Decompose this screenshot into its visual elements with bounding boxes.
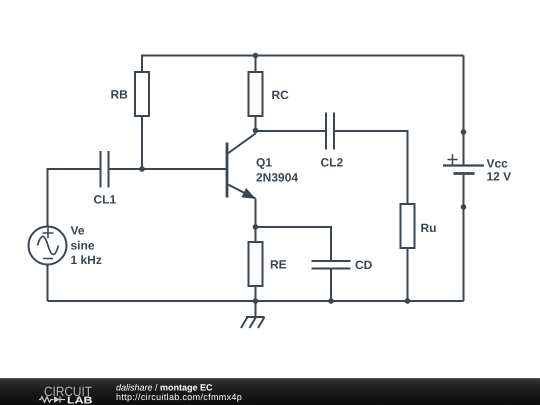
svg-text:RC: RC: [272, 88, 290, 102]
label Q1: [256, 156, 272, 170]
wire RB to top rail: [141, 55, 143, 73]
svg-text:1 kHz: 1 kHz: [71, 253, 102, 267]
wire collector node to CL2: [256, 130, 327, 132]
label CD: [355, 258, 373, 272]
resistor RB: [135, 72, 149, 116]
capacitor CD: [312, 261, 351, 269]
label Ve: [71, 224, 85, 238]
label CL1: [94, 193, 117, 207]
wire collector to RC: [255, 116, 257, 134]
logo squiggle: [39, 396, 65, 402]
label Vcc: [487, 157, 509, 171]
wire Ve to bottom rail: [47, 265, 49, 302]
wire CL1 to base: [109, 168, 228, 170]
wire top rail: [142, 55, 464, 57]
label CL2: [321, 156, 344, 170]
svg-text:RB: RB: [111, 88, 129, 102]
svg-text:LAB: LAB: [67, 396, 93, 405]
logo LAB: [67, 396, 93, 405]
label 1 kHz: [71, 253, 102, 267]
label 12 V: [487, 170, 512, 184]
wire bottom rail: [48, 300, 464, 302]
svg-text:http://circuitlab.com/cfmmx4p: http://circuitlab.com/cfmmx4p: [116, 392, 242, 402]
wire Ve to CL1: [48, 169, 101, 227]
svg-text:Ru: Ru: [421, 221, 437, 235]
ground: [241, 301, 265, 328]
junction base node: [139, 166, 145, 172]
capacitor CL2: [326, 113, 334, 150]
battery Vcc: [443, 56, 484, 302]
svg-text:12 V: 12 V: [487, 170, 512, 184]
battery bottom terminal: [461, 204, 467, 210]
capacitor CL1: [101, 151, 109, 188]
wire emitter node to CD: [256, 227, 332, 261]
wire Ru to bottom rail: [407, 248, 409, 301]
svg-text:CD: CD: [355, 258, 373, 272]
junction RE bottom rail: [253, 298, 259, 304]
wire CD to bottom rail: [330, 269, 332, 302]
resistor RE: [249, 227, 263, 301]
footer url: [116, 392, 242, 402]
wire emitter lead: [255, 199, 257, 228]
svg-text:2N3904: 2N3904: [256, 171, 298, 185]
junction collector node: [253, 128, 259, 134]
voltage source Ve: [29, 227, 67, 265]
label 2N3904: [256, 171, 298, 185]
svg-text:CL1: CL1: [94, 193, 117, 207]
battery top terminal: [461, 129, 467, 135]
svg-text:Q1: Q1: [256, 156, 272, 170]
wire CL2 to Ru: [334, 131, 408, 204]
transistor Q1: [227, 134, 256, 199]
resistor Ru: [401, 204, 415, 248]
label RB: [111, 88, 129, 102]
svg-text:sine: sine: [71, 239, 95, 253]
label Ru: [421, 221, 437, 235]
junction emitter node: [253, 224, 259, 230]
junction CD bottom rail: [328, 298, 334, 304]
svg-text:CL2: CL2: [321, 156, 344, 170]
svg-text:RE: RE: [270, 258, 287, 272]
svg-text:Vcc: Vcc: [487, 157, 509, 171]
junction top rail RC: [253, 53, 259, 59]
junction Ru bottom rail: [405, 298, 411, 304]
label RC: [272, 88, 290, 102]
wire RB to base node: [141, 116, 143, 169]
label RE: [270, 258, 287, 272]
label sine: [71, 239, 95, 253]
svg-text:Ve: Ve: [71, 224, 85, 238]
footer attribution: [116, 383, 213, 393]
resistor RC: [249, 55, 263, 117]
footer bar: [0, 378, 540, 405]
logo CIRCUIT: [44, 384, 92, 399]
